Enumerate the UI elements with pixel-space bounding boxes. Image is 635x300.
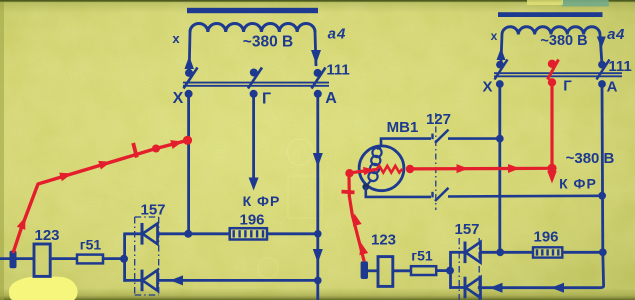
svg-text:X: X bbox=[482, 79, 492, 96]
diode block 157 dash-dot enclosure (right) bbox=[458, 238, 460, 300]
svg-text:~380 В: ~380 В bbox=[243, 34, 293, 51]
contact X of block 111 (right): dot above bbox=[496, 61, 504, 69]
wire: T-left terminal a4 lead down bbox=[315, 32, 316, 66]
transformer T-right primary winding ~380V bbox=[502, 27, 600, 35]
wire: phase A vertical (left) bbox=[316, 94, 319, 300]
red wire: phase G vertical down (right) bbox=[550, 82, 553, 168]
transformer T-left primary winding ~380V bbox=[190, 24, 315, 32]
diode block 157 dash-dot enclosure (left) bbox=[135, 217, 159, 295]
diode VD3 of 157 (right top, pointing left) bbox=[464, 242, 467, 264]
wire: vertical tie of diode pair (left) bbox=[123, 233, 126, 282]
wire: T-right terminal x lead down bbox=[501, 35, 502, 63]
svg-text:123: 123 bbox=[371, 232, 396, 249]
red node dot at motor output (right) bbox=[406, 165, 414, 173]
junction node: A with resistor-196 wire (right) bbox=[599, 248, 607, 256]
motor MB1 body circle bbox=[359, 146, 404, 191]
contact X blade (right) bbox=[495, 60, 508, 80]
contact A blade (right) bbox=[597, 60, 610, 80]
junction node: A with motor return (right) bbox=[598, 192, 606, 200]
plug body 123 (left) bbox=[34, 244, 50, 276]
svg-text:а4: а4 bbox=[328, 26, 347, 43]
arrow down on a4 lead (left) bbox=[311, 50, 321, 64]
wire: MB1 top lead to contact 127a bbox=[381, 139, 431, 147]
paper artifact: yellow highlight blob bottom left bbox=[9, 277, 78, 300]
arrow up on x lead (right) bbox=[497, 48, 506, 60]
wire: junction to top diode (left) bbox=[125, 232, 142, 235]
junction node: X with diode wire (right) bbox=[496, 248, 504, 256]
junction node: phase X meets diode wire (left) bbox=[184, 230, 192, 238]
wire: bottom return with arrow (left) bbox=[158, 279, 318, 282]
wire: 123 to r51 (right) bbox=[393, 269, 411, 272]
svg-text:~380 В: ~380 В bbox=[540, 33, 587, 49]
arrow down on a4 lead (right) bbox=[597, 37, 606, 49]
red arrow 3 (left) bbox=[98, 157, 112, 169]
contact A dot below (node A left) bbox=[314, 90, 322, 98]
paper artifact: teal smudge top right bbox=[561, 0, 609, 7]
wire: contact 127b to phase A bbox=[448, 195, 602, 198]
svg-text:123: 123 bbox=[34, 227, 59, 244]
junction node: A with bottom return wire (left) bbox=[314, 277, 322, 285]
svg-text:а4: а4 bbox=[607, 26, 625, 43]
red contact G blade (right) bbox=[548, 60, 559, 80]
connector block 111 busbar (right, double line) bbox=[494, 72, 622, 74]
transformer T-left magnetic core bar bbox=[187, 8, 318, 13]
connector block 111 busbar (left, double line) bbox=[183, 82, 329, 84]
wire: vertical tie of diode pair (right) bbox=[449, 251, 452, 289]
red node dot mid (left) bbox=[152, 145, 160, 153]
red arrow into motor bbox=[363, 165, 375, 175]
wire: T-right terminal a4 lead down bbox=[600, 35, 602, 63]
arrow down on phase A upper (left) bbox=[313, 153, 323, 167]
arrow left 2 on bottom return (right) bbox=[490, 283, 503, 293]
junction node: r51 output (left) bbox=[120, 255, 128, 263]
red arrow up 2 (right) bbox=[356, 241, 368, 255]
wire: phase X vertical (left) bbox=[187, 94, 190, 235]
wire: junction to bottom diode (left) bbox=[125, 279, 142, 282]
paper artifact: faint outlines mid page bbox=[258, 139, 322, 278]
junction node: A with resistor-196 wire (left) bbox=[314, 230, 322, 238]
wire: diode row to resistor 196 (left) bbox=[158, 232, 230, 235]
resistor 196 (left) bbox=[230, 228, 267, 239]
diode VD2 of 157 (left bottom, pointing left) bbox=[141, 270, 144, 292]
wire: input from plug to 123 (left) bbox=[0, 257, 34, 260]
arrow up on x lead (left) bbox=[184, 56, 194, 69]
svg-text:МВ1: МВ1 bbox=[387, 119, 419, 136]
red contact G dot below (right) bbox=[548, 78, 556, 86]
diode VD1 of 157 (left top, pointing left) bbox=[141, 223, 144, 245]
svg-text:196: 196 bbox=[239, 212, 264, 229]
svg-text:x: x bbox=[491, 29, 498, 43]
terminal bar of plug 123 (left) bbox=[10, 251, 17, 269]
svg-text:127: 127 bbox=[426, 111, 451, 128]
contact A of block 111 (left): dot above bbox=[314, 69, 322, 77]
plug body 123 (right) bbox=[378, 257, 393, 287]
red feed wire (left): polyline from plug to phase X bbox=[13, 140, 188, 253]
svg-text:A: A bbox=[325, 90, 337, 107]
red arrow 1 up (left) bbox=[17, 215, 30, 229]
contact A dot below (node A right) bbox=[598, 80, 606, 88]
red isolation tick (left) bbox=[133, 143, 137, 158]
red arrow right 1 (right) bbox=[456, 164, 468, 173]
svg-text:157: 157 bbox=[140, 202, 165, 219]
svg-text:x: x bbox=[172, 31, 180, 46]
red wire: down to plug terminal (right) bbox=[349, 175, 364, 262]
wire: phase G vertical to KFR (left) bbox=[252, 94, 255, 181]
mechanical link dash-dot of 127 bbox=[435, 113, 437, 210]
svg-text:г51: г51 bbox=[411, 248, 433, 264]
wire: MB1 bottom lead to contact 127b bbox=[366, 187, 431, 197]
red node dot left of motor bbox=[345, 169, 353, 177]
transformer T-right magnetic core bar bbox=[498, 12, 603, 17]
red arrow 4 (left) bbox=[170, 137, 184, 149]
red node dot on phase X (left) bbox=[183, 136, 192, 145]
wire: contact 127a to phase X bbox=[448, 137, 500, 140]
contact 127b blade bbox=[435, 188, 449, 201]
contact G dot below (node G left) bbox=[250, 90, 258, 98]
motor MB1 winding squiggle bbox=[366, 148, 381, 187]
wire: phase A corner to bottom return (right) bbox=[478, 252, 604, 287]
red isolation tick (right) bbox=[342, 190, 355, 195]
svg-text:111: 111 bbox=[608, 58, 631, 75]
contact 127a fixed tick bbox=[431, 134, 433, 140]
svg-text:Г: Г bbox=[262, 91, 271, 108]
red arrow up 1 (right) bbox=[350, 212, 362, 226]
wire: phase A vertical (right) bbox=[601, 84, 605, 252]
wire: resistor 196 to phase A corner (right) bbox=[562, 251, 603, 254]
arrow left 1 on bottom return (right) bbox=[551, 283, 564, 293]
wire: 123 to r51 (left) bbox=[50, 257, 77, 260]
svg-text:Г: Г bbox=[563, 78, 572, 95]
wire: input terminal to 123 (right) bbox=[368, 269, 378, 272]
terminal bar of plug 123 (right) bbox=[361, 261, 368, 279]
arrow left on bottom return (left) bbox=[170, 275, 183, 285]
arrow down on phase A lower (left) bbox=[313, 249, 323, 263]
wire: resistor 196 to phase A (left) bbox=[267, 232, 318, 235]
svg-text:К ФР: К ФР bbox=[243, 193, 281, 209]
resistor 196 (right) bbox=[533, 247, 562, 257]
svg-text:г51: г51 bbox=[80, 237, 102, 253]
svg-text:157: 157 bbox=[454, 221, 479, 238]
resistor r51 (left) bbox=[77, 255, 103, 264]
red squiggle through motor winding bbox=[377, 166, 403, 173]
svg-text:111: 111 bbox=[326, 62, 349, 79]
svg-text:196: 196 bbox=[533, 229, 558, 246]
contact 127a blade bbox=[435, 130, 449, 143]
junction node: r51 output (right) bbox=[446, 267, 454, 275]
red contact G of block 111 (right): dot above bbox=[548, 60, 556, 68]
svg-text:X: X bbox=[173, 90, 184, 107]
contact X dot below (node X right) bbox=[496, 80, 504, 88]
red arrow down to KFR (right) bbox=[547, 171, 557, 184]
contact X of block 111 (left): dot above bbox=[185, 69, 193, 77]
red wire: entry into motor bbox=[350, 169, 378, 172]
red arrow right 2 (right) bbox=[508, 164, 520, 173]
wire: phase X vertical (right) bbox=[498, 84, 501, 252]
svg-text:~380 В: ~380 В bbox=[566, 150, 615, 167]
wire: junction to bottom diode (right) bbox=[451, 286, 466, 289]
motor MB1 bottom lead node bbox=[362, 183, 369, 190]
wire: junction to top diode (right) bbox=[451, 251, 466, 254]
junction node: X with contact-127 wire (right) bbox=[496, 135, 504, 143]
wire: T-left terminal x lead down bbox=[188, 32, 192, 71]
arrow to KFR (left) bbox=[249, 178, 259, 191]
svg-text:A: A bbox=[607, 79, 618, 96]
red wire: horizontal from motor to G (right) bbox=[409, 167, 549, 171]
wire: r51 to diode junction (right) bbox=[436, 269, 452, 272]
contact X blade (left) bbox=[184, 68, 198, 89]
contact 127b fixed tick bbox=[431, 192, 433, 198]
contact X dot below (node X left) bbox=[185, 90, 193, 98]
red arrow 2 (left) bbox=[59, 169, 73, 181]
resistor r51 (right) bbox=[411, 266, 436, 275]
contact A blade (left) bbox=[312, 68, 326, 89]
red node dot at KFR tap (right) bbox=[547, 164, 556, 173]
wire: r51 to diode junction (left) bbox=[103, 257, 126, 260]
contact G of block 111 (left): dot above bbox=[250, 69, 258, 77]
contact A of block 111 (right): dot above bbox=[598, 61, 606, 69]
svg-text:К ФР: К ФР bbox=[559, 176, 597, 192]
wire: top diode to resistor 196 (right) bbox=[481, 251, 534, 254]
contact G blade (left) bbox=[248, 68, 262, 89]
diode VD4 of 157 (right bottom, pointing left) bbox=[464, 277, 467, 299]
